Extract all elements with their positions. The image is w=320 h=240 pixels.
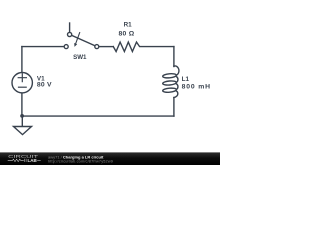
svg-text:800 mH: 800 mH	[182, 83, 211, 90]
svg-text:http://circuitlab.com/c/87frw7: http://circuitlab.com/c/87frw7y52w9	[48, 160, 113, 164]
svg-text:SW1: SW1	[73, 54, 87, 61]
svg-text:80 Ω: 80 Ω	[118, 31, 134, 38]
svg-text:LAB: LAB	[28, 158, 37, 163]
svg-text:80 V: 80 V	[37, 82, 52, 89]
svg-text:L1: L1	[182, 76, 190, 83]
svg-text:R1: R1	[124, 21, 133, 28]
